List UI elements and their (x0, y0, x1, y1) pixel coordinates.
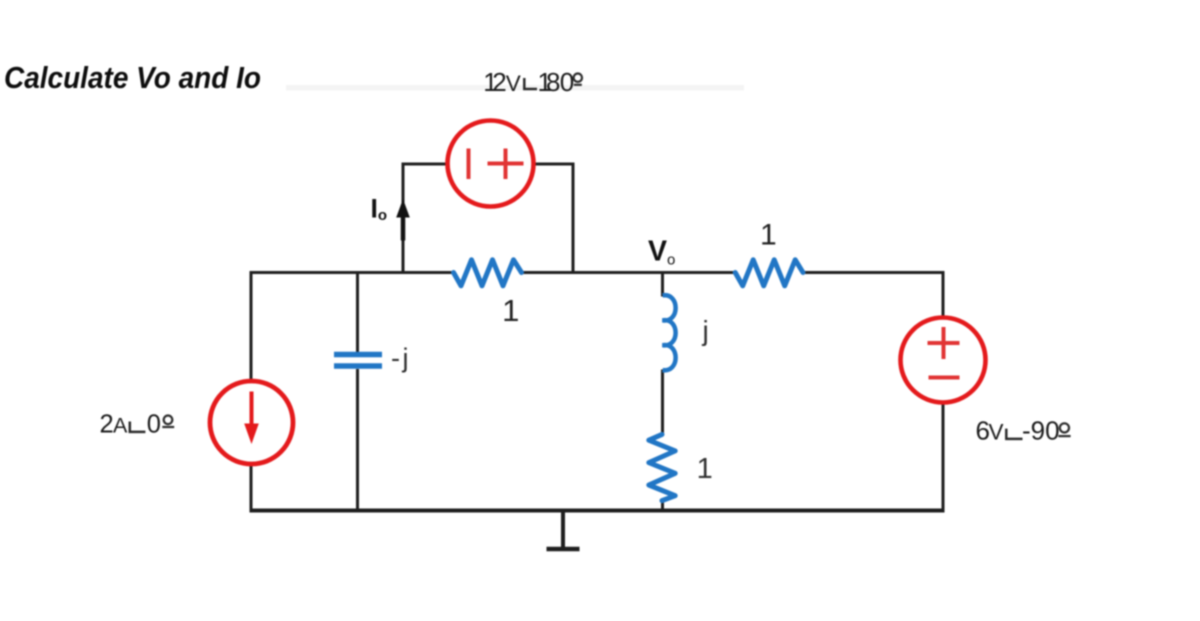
svg-text:-90: -90 (1022, 415, 1060, 445)
svg-text:2: 2 (100, 410, 114, 438)
ground (547, 511, 580, 550)
resistor R3 (1 ohm, vertical, middle bottom) (649, 434, 675, 500)
resistor R2 (1 ohm, horizontal, top right) (735, 260, 803, 286)
wire: Io branch up to top source (left side) (403, 164, 448, 274)
capacitor C1 (-j) (334, 355, 382, 367)
wire: left rail upper + top-left horizontal segment (251, 273, 454, 383)
voltage source V1 (12V, top) (448, 121, 534, 207)
wire: top-right segment + right rail upper (803, 273, 943, 319)
wire: capacitor branch lower (356, 369, 359, 511)
wire: right rail lower (942, 403, 945, 513)
svg-text:V: V (506, 71, 521, 96)
wire: top source right side down to main wire (533, 164, 573, 274)
svg-text:1: 1 (502, 293, 519, 328)
label 12V angle 180 deg (483, 67, 582, 97)
svg-text:1: 1 (697, 453, 713, 485)
inductor L1 (j) (663, 295, 676, 370)
svg-text:Calculate Vo and Io: Calculate Vo and Io (4, 61, 261, 95)
wire: R3 bottom stub (661, 500, 664, 511)
svg-text:0: 0 (560, 67, 574, 97)
label 2A angle 0 deg (100, 410, 175, 438)
current source I1 (2A, left) (210, 381, 293, 464)
wire: capacitor branch upper (356, 271, 359, 353)
svg-text:1: 1 (760, 219, 777, 252)
faint gray streak artifact (286, 85, 744, 91)
svg-text:V: V (989, 419, 1004, 444)
label 6V angle -90 deg (976, 415, 1071, 445)
resistor R1 (1 ohm, horizontal, top middle) (454, 260, 522, 286)
svg-text:j: j (702, 315, 709, 346)
wire: bottom rail (250, 509, 945, 513)
svg-text:0: 0 (147, 410, 161, 438)
wire: top segment between R1 and R2 (522, 271, 736, 274)
wire: segment between inductor and R3 (661, 370, 664, 436)
current arrow Io (396, 199, 410, 241)
wire: left rail lower (250, 464, 253, 512)
svg-text:-j: -j (391, 343, 411, 373)
svg-text:A: A (113, 413, 128, 437)
wire: inductor branch top stub (661, 271, 664, 297)
voltage source V2 (6V, right) (901, 318, 986, 403)
svg-text:2: 2 (492, 67, 506, 97)
svg-text:8: 8 (546, 67, 560, 97)
